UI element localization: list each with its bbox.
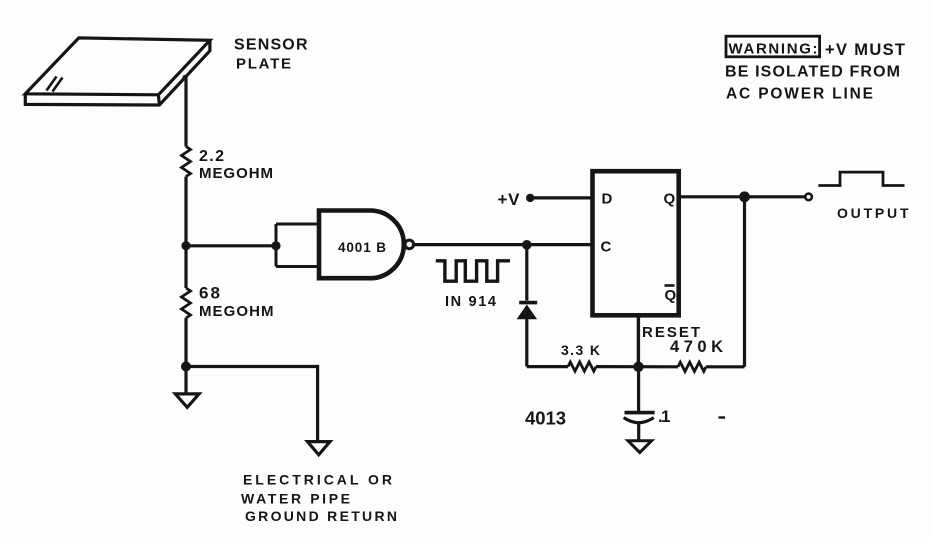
ground G3 [628, 441, 652, 453]
svg-text:C: C [601, 239, 612, 256]
wire +V to D pin [530, 196, 592, 199]
svg-text:BE ISOLATED FROM: BE ISOLATED FROM [725, 64, 900, 81]
plate connection dot [182, 75, 187, 80]
diode D1 triangle [517, 305, 538, 320]
+V terminal dot [526, 194, 534, 202]
svg-text:4013: 4013 [525, 408, 566, 429]
wire node A to gate input [186, 244, 276, 247]
wire diode to R3 [527, 365, 568, 368]
ground G2 [308, 442, 331, 455]
wire R2 to node F [184, 318, 187, 367]
node E [633, 362, 643, 372]
Qbar overbar [665, 284, 675, 287]
warning box [726, 36, 820, 57]
node D output junction [739, 191, 750, 202]
svg-text:3.3 K: 3.3 K [561, 342, 600, 358]
wire capacitor to ground [637, 423, 640, 441]
wire plate to R1 [184, 77, 187, 147]
label SENSOR PLATE [234, 37, 308, 73]
resistor R3 3.3K [568, 362, 596, 371]
svg-text:ELECTRICAL OR: ELECTRICAL OR [243, 472, 392, 488]
resistor R4 470K [678, 362, 706, 371]
svg-text:MEGOHM: MEGOHM [199, 165, 273, 182]
sensor plate [25, 38, 210, 105]
clock waveform symbol [436, 261, 510, 281]
svg-text:+V MUST: +V MUST [825, 41, 905, 59]
wire node E to capacitor [637, 367, 640, 411]
output terminal circle [805, 194, 812, 201]
wire node D down to resistor line [743, 197, 746, 367]
node B gate input junction [271, 241, 280, 250]
svg-text:470K: 470K [670, 338, 723, 356]
svg-text:Q: Q [665, 287, 677, 304]
stray mark [719, 416, 726, 418]
diode D1 wire lower [525, 319, 528, 367]
node C [522, 240, 532, 250]
svg-text:+V: +V [498, 190, 521, 209]
diode D1 wire upper [525, 245, 528, 301]
svg-text:.1: .1 [658, 407, 671, 426]
wire node A to R2 [184, 246, 187, 288]
diode D1 cathode bar [519, 301, 537, 305]
node A [181, 241, 190, 250]
wire R1 to node A [184, 177, 187, 247]
wire Q output to terminal [679, 195, 806, 198]
svg-text:2.2: 2.2 [199, 148, 224, 165]
svg-text:WARNING:: WARNING: [729, 41, 818, 58]
resistor R1 2.2 MEGOHM [182, 147, 191, 177]
svg-text:MEGOHM: MEGOHM [199, 303, 274, 320]
ground G1 [175, 394, 199, 407]
gate output bubble [405, 240, 414, 249]
label 2.2 MEGOHM [199, 148, 273, 182]
svg-text:WATER PIPE: WATER PIPE [241, 491, 350, 507]
wire RESET stem [637, 315, 640, 367]
wire gate output to C pin [414, 243, 593, 246]
wire R4 to node D vertical [706, 365, 745, 368]
svg-text:D: D [602, 191, 613, 208]
svg-text:PLATE: PLATE [236, 55, 291, 72]
capacitor C1 bottom plate arc [624, 418, 654, 423]
wire node F to ground G2 [186, 367, 318, 442]
svg-text:4001 B: 4001 B [338, 240, 386, 255]
svg-text:AC POWER LINE: AC POWER LINE [726, 86, 873, 103]
svg-text:68: 68 [199, 284, 220, 303]
label ELECTRICAL OR WATER PIPE GROUND RETURN [241, 472, 397, 525]
label 68 MEGOHM [199, 284, 274, 321]
node F [181, 362, 191, 372]
svg-text:GROUND RETURN: GROUND RETURN [245, 508, 397, 524]
plate hatch marks [47, 77, 63, 92]
svg-text:OUTPUT: OUTPUT [837, 205, 909, 221]
wire node F ground stem [184, 367, 187, 394]
wire R3 to node E [596, 365, 678, 368]
output pulse symbol [818, 172, 904, 185]
capacitor C1 top plate [625, 411, 655, 415]
NOR gate U1 4001B body [319, 211, 404, 279]
svg-text:Q: Q [664, 190, 676, 207]
flip-flop U2 box [593, 171, 679, 315]
svg-text:IN 914: IN 914 [445, 294, 496, 310]
resistor R2 68 MEGOHM [182, 288, 191, 318]
gate input tie bracket [276, 224, 319, 267]
svg-text:SENSOR: SENSOR [234, 37, 308, 54]
